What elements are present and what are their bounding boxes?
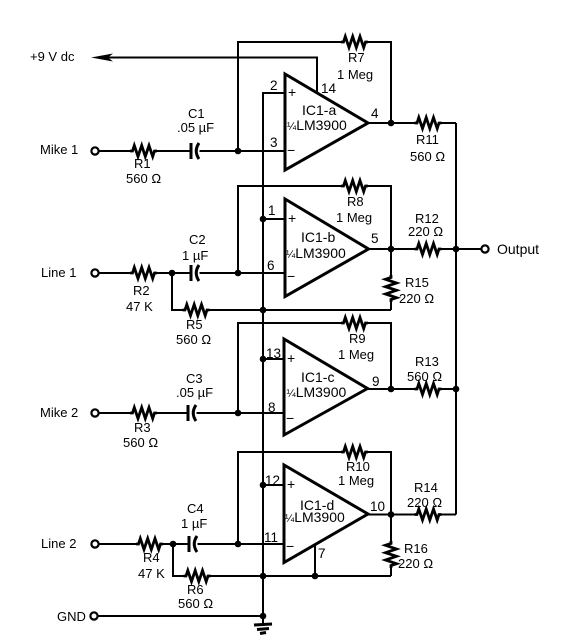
resistor R6 [178,571,213,612]
wire output bus [455,123,457,515]
svg-text:+: + [287,476,295,492]
wire Mike2 terminal to R3 [98,412,131,414]
wire pin 12 stub [263,484,284,486]
node R2/C2/R5 junction [169,270,176,277]
wire R5 to R15 bottom [209,309,391,311]
input GND label [57,609,86,624]
wire R8 to pin 5 node [368,186,392,249]
pin 10 label [370,499,385,514]
svg-text:R15: R15 [405,275,429,290]
svg-text:Output: Output [497,241,539,257]
node C1/R7 junction [235,148,242,155]
wire +9V rail to pin 14 [108,58,317,93]
pin 1 label [268,203,276,218]
node pin 9 output [388,386,395,393]
svg-text:560 Ω: 560 Ω [176,332,211,347]
terminal Output [481,245,488,252]
svg-text:47 K: 47 K [138,566,165,581]
pin 14 label [321,81,337,96]
node C2/R8 junction [235,270,242,277]
wire Line1 junction down to R5 [172,273,184,310]
node R5/ground bus [260,307,267,314]
svg-text:6: 6 [267,258,275,273]
svg-text:R13: R13 [415,354,439,369]
svg-text:C4: C4 [187,501,204,516]
pin 4 label [371,106,379,121]
svg-text:R9: R9 [349,331,366,346]
wire R7 feedback left [238,42,342,151]
pin 3 label [270,135,278,150]
net +9V label [30,49,75,64]
svg-text:1: 1 [268,203,276,218]
terminal Mike 2 [91,409,98,416]
wire Line2 junction down to R6 [173,544,184,576]
pin 12 label [265,473,280,488]
resistor R13 [391,354,456,395]
wire C2 to pin 6 [200,272,286,274]
svg-text:7: 7 [318,546,326,561]
svg-text:1 Meg: 1 Meg [336,210,372,225]
svg-text:¼LM3900: ¼LM3900 [287,117,347,133]
wire R9 to pin 9 node [368,323,392,389]
node R6/ground bus [260,573,267,580]
svg-text:C3: C3 [186,371,203,386]
wire pin 13 stub [263,358,284,360]
svg-text:+: + [287,350,295,366]
resistor R15 [386,249,435,310]
node pin 4 output [388,120,395,127]
input Line 2 label [41,536,76,551]
wire pin 1 stub [263,218,285,220]
wire pin 9 output stub [368,388,392,390]
svg-text:R11: R11 [416,132,439,147]
svg-text:¼LM3900: ¼LM3900 [285,509,345,525]
svg-text:.05 µF: .05 µF [177,120,214,135]
svg-text:R3: R3 [134,420,151,435]
svg-text:IC1-a: IC1-a [302,102,336,118]
svg-text:220 Ω: 220 Ω [408,224,443,239]
terminal Line 1 [91,269,98,276]
svg-text:1 Meg: 1 Meg [338,347,374,362]
wire R8 feedback left [238,186,342,273]
svg-text:+9 V dc: +9 V dc [30,49,75,64]
+9V arrowhead [91,54,113,62]
pin 5 label [371,231,379,246]
resistor R1 [126,146,161,187]
node GND/ground bus [260,613,267,620]
capacitor C4 [181,501,207,552]
wire C1 to pin 3 [200,150,286,152]
pin 9 label [372,374,380,389]
Output label [497,241,539,257]
svg-text:R2: R2 [133,283,150,298]
wire Mike1 terminal to R1 [98,150,131,152]
svg-text:1 µF: 1 µF [182,248,208,263]
svg-text:9: 9 [372,374,380,389]
wire R4 to C4 [163,543,190,545]
wire R7 to pin 4 node [368,42,392,123]
resistor R7 [337,37,373,83]
svg-text:C1: C1 [188,106,205,121]
svg-text:220 Ω: 220 Ω [398,556,433,571]
node output bus/R12 [453,246,460,253]
op-amp IC1-c [284,339,368,435]
terminal Mike 1 [91,147,98,154]
svg-text:5: 5 [371,231,379,246]
svg-text:+: + [288,210,296,226]
svg-text:−: − [287,142,295,158]
node pin 1/ground bus [260,216,267,223]
svg-text:−: − [286,410,294,426]
pin 2 label [270,78,278,93]
svg-text:R16: R16 [404,541,428,556]
terminal GND [90,612,97,619]
svg-text:IC1-c: IC1-c [301,369,334,385]
resistor R8 [336,181,372,226]
wire pin 7 to ground wire [314,545,316,576]
terminal Line 2 [91,540,98,547]
svg-text:C2: C2 [189,232,206,247]
node output bus/R13 [453,386,460,393]
svg-text:+: + [288,84,296,100]
svg-text:560 Ω: 560 Ω [126,171,161,186]
resistor R4 [136,539,165,582]
svg-text:14: 14 [321,81,337,96]
wire R10 feedback left [238,452,342,544]
svg-text:Mike 1: Mike 1 [40,142,78,157]
pin 13 label [266,346,281,361]
input Line 1 label [41,265,76,280]
svg-text:560 Ω: 560 Ω [123,435,158,450]
svg-text:R5: R5 [186,317,203,332]
resistor R14 [391,480,456,520]
resistor R11 [391,118,456,165]
wire C4 to pin 11 [198,543,285,545]
svg-text:R14: R14 [414,480,438,495]
wire Line2 terminal to R4 [98,543,137,545]
svg-text:2: 2 [270,78,278,93]
resistor R5 [176,305,211,348]
pin 8 label [268,400,276,415]
wire ground bus (non-inverting input bus) [263,93,285,616]
svg-text:IC1-b: IC1-b [301,229,335,245]
pin 7 label [318,546,326,561]
svg-text:GND: GND [57,609,86,624]
op-amp IC1-a [285,74,368,170]
svg-text:10: 10 [370,499,385,514]
svg-text:Line 2: Line 2 [41,536,76,551]
svg-text:3: 3 [270,135,278,150]
svg-text:R8: R8 [347,194,364,209]
svg-text:220 Ω: 220 Ω [407,495,442,510]
svg-text:R6: R6 [187,582,204,597]
wire pin 5 output stub [369,248,392,250]
node R4/C4/R6 junction [170,541,177,548]
wire bus to Output terminal [456,248,481,250]
svg-text:R4: R4 [143,550,160,565]
input Mike 1 label [40,142,78,157]
svg-text:1 Meg: 1 Meg [338,473,374,488]
pin 6 label [267,258,275,273]
resistor R16 [386,515,434,577]
ground symbol [254,616,272,634]
resistor R9 [338,318,374,363]
capacitor C1 [177,106,214,159]
node pin 12/ground bus [260,482,267,489]
svg-text:1 Meg: 1 Meg [337,67,373,82]
svg-text:47 K: 47 K [126,299,153,314]
node pin 13/ground bus [260,356,267,363]
op-amp IC1-b [285,199,369,297]
op-amp IC1-d [284,465,368,563]
wire GND terminal to ground bus [98,615,263,617]
svg-text:−: − [286,538,294,554]
pin 11 label [264,530,278,545]
svg-text:560 Ω: 560 Ω [407,369,442,384]
wire R9 feedback left [238,323,342,413]
node pin 10 output [388,511,395,518]
wire R2 to C2 [157,272,192,274]
resistor R2 [126,268,157,315]
svg-text:4: 4 [371,106,379,121]
node C4/R10 junction [235,541,242,548]
svg-text:R1: R1 [134,156,151,171]
svg-text:560 Ω: 560 Ω [410,149,445,164]
svg-text:220 Ω: 220 Ω [399,291,434,306]
wire R10 to pin 10 node [368,452,392,515]
svg-text:8: 8 [268,400,276,415]
capacitor C3 [176,371,213,421]
resistor R3 [123,408,158,451]
svg-text:¼LM3900: ¼LM3900 [286,245,346,261]
wire C3 to pin 8 [197,412,285,414]
wire Line1 terminal to R2 [98,272,131,274]
resistor R12 [391,211,456,255]
svg-text:Mike 2: Mike 2 [40,405,78,420]
input Mike 2 label [40,405,78,420]
node pin7/ground wire [312,573,319,580]
wire pin 10 output stub [368,514,391,516]
svg-text:1 µF: 1 µF [181,516,207,531]
wire R3 to C3 [157,412,189,414]
svg-text:R10: R10 [346,459,370,474]
svg-text:11: 11 [264,530,278,545]
svg-text:.05 µF: .05 µF [176,385,213,400]
svg-text:Line 1: Line 1 [41,265,76,280]
wire pin 4 output stub [368,122,391,124]
node pin 5 output [388,246,395,253]
svg-text:560 Ω: 560 Ω [178,596,213,611]
svg-text:−: − [287,268,295,284]
node C3/R9 junction [235,410,242,417]
resistor R10 [338,447,374,489]
capacitor C2 [182,232,208,281]
wire pin 2 stub [263,92,285,94]
svg-text:¼LM3900: ¼LM3900 [287,384,347,400]
wire R1 to C1 [157,150,192,152]
wire R6 to R16 bottom [210,575,391,577]
svg-text:R7: R7 [348,50,365,65]
